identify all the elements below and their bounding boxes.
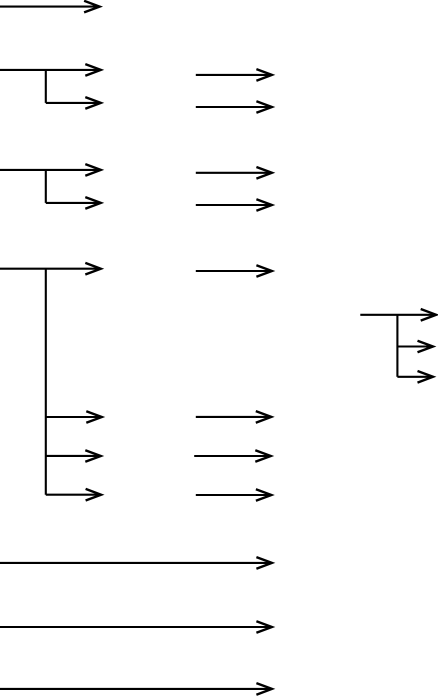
wire B main [0,64,101,76]
arrow R branch 1 [397,341,433,353]
arrow F mid 0 [196,265,272,277]
arrow B mid 1 [196,69,272,81]
arrow F mid 1 [196,411,271,423]
arrow A1 (top single arrow) [0,1,100,13]
wire D main [0,164,101,176]
wire F vertical [45,269,47,495]
arrow B mid 2 [196,101,272,113]
arrow bottom 2 [0,621,272,633]
arrow B branch [46,97,101,109]
wire R vertical [396,315,398,377]
arrow F mid 2 [194,450,271,462]
arrow F branch 1 [46,411,102,423]
arrow bottom 3 [0,683,272,695]
wire F main [0,263,101,275]
arrow F branch 3 [46,489,101,501]
arrow R branch 2 [397,371,433,383]
wire R main [360,309,436,321]
arrow bottom 1 [0,557,272,569]
arrow F branch 2 [46,450,101,462]
arrow D mid 1 [196,167,272,179]
arrow F mid 3 [196,489,272,501]
wire B vertical [45,70,47,103]
wire D vertical [45,170,47,203]
arrow D mid 2 [196,199,272,211]
arrow D branch [46,197,101,209]
